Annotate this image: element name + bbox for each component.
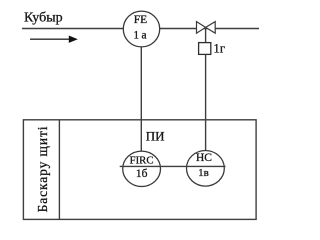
svg-text:Баскару щиті: Баскару щиті — [35, 126, 50, 213]
flow element FE 1а (circle) — [123, 11, 159, 47]
wire: impulse line from valve down through actuator square to HC controller — [205, 28, 207, 152]
controller FIRC 1б (circle) — [123, 151, 161, 186]
control valve (bowtie) — [197, 22, 206, 34]
svg-text:1б: 1б — [136, 168, 148, 180]
wire: impulse line from FE down to FIRC — [140, 29, 142, 151]
svg-text:FIRC: FIRC — [130, 155, 154, 167]
wire: signal line FIRC - НС (chord through both circles) — [120, 165, 226, 167]
svg-text:1г: 1г — [213, 40, 225, 55]
flow direction arrow — [30, 38, 70, 40]
svg-text:ПИ: ПИ — [146, 129, 165, 144]
svg-text:FE: FE — [134, 14, 147, 26]
control panel divider line — [58, 120, 60, 220]
svg-text:НС: НС — [196, 152, 212, 164]
control panel rectangle (Баскару щиті) — [23, 120, 256, 220]
svg-text:1 а: 1 а — [133, 30, 146, 42]
valve actuator square 1г — [199, 43, 211, 55]
pipe line (Кубыр main line) — [22, 28, 259, 30]
hand control НС 1в (circle) — [187, 151, 225, 187]
svg-text:Кубыр: Кубыр — [24, 11, 63, 26]
svg-text:1в: 1в — [198, 167, 209, 179]
